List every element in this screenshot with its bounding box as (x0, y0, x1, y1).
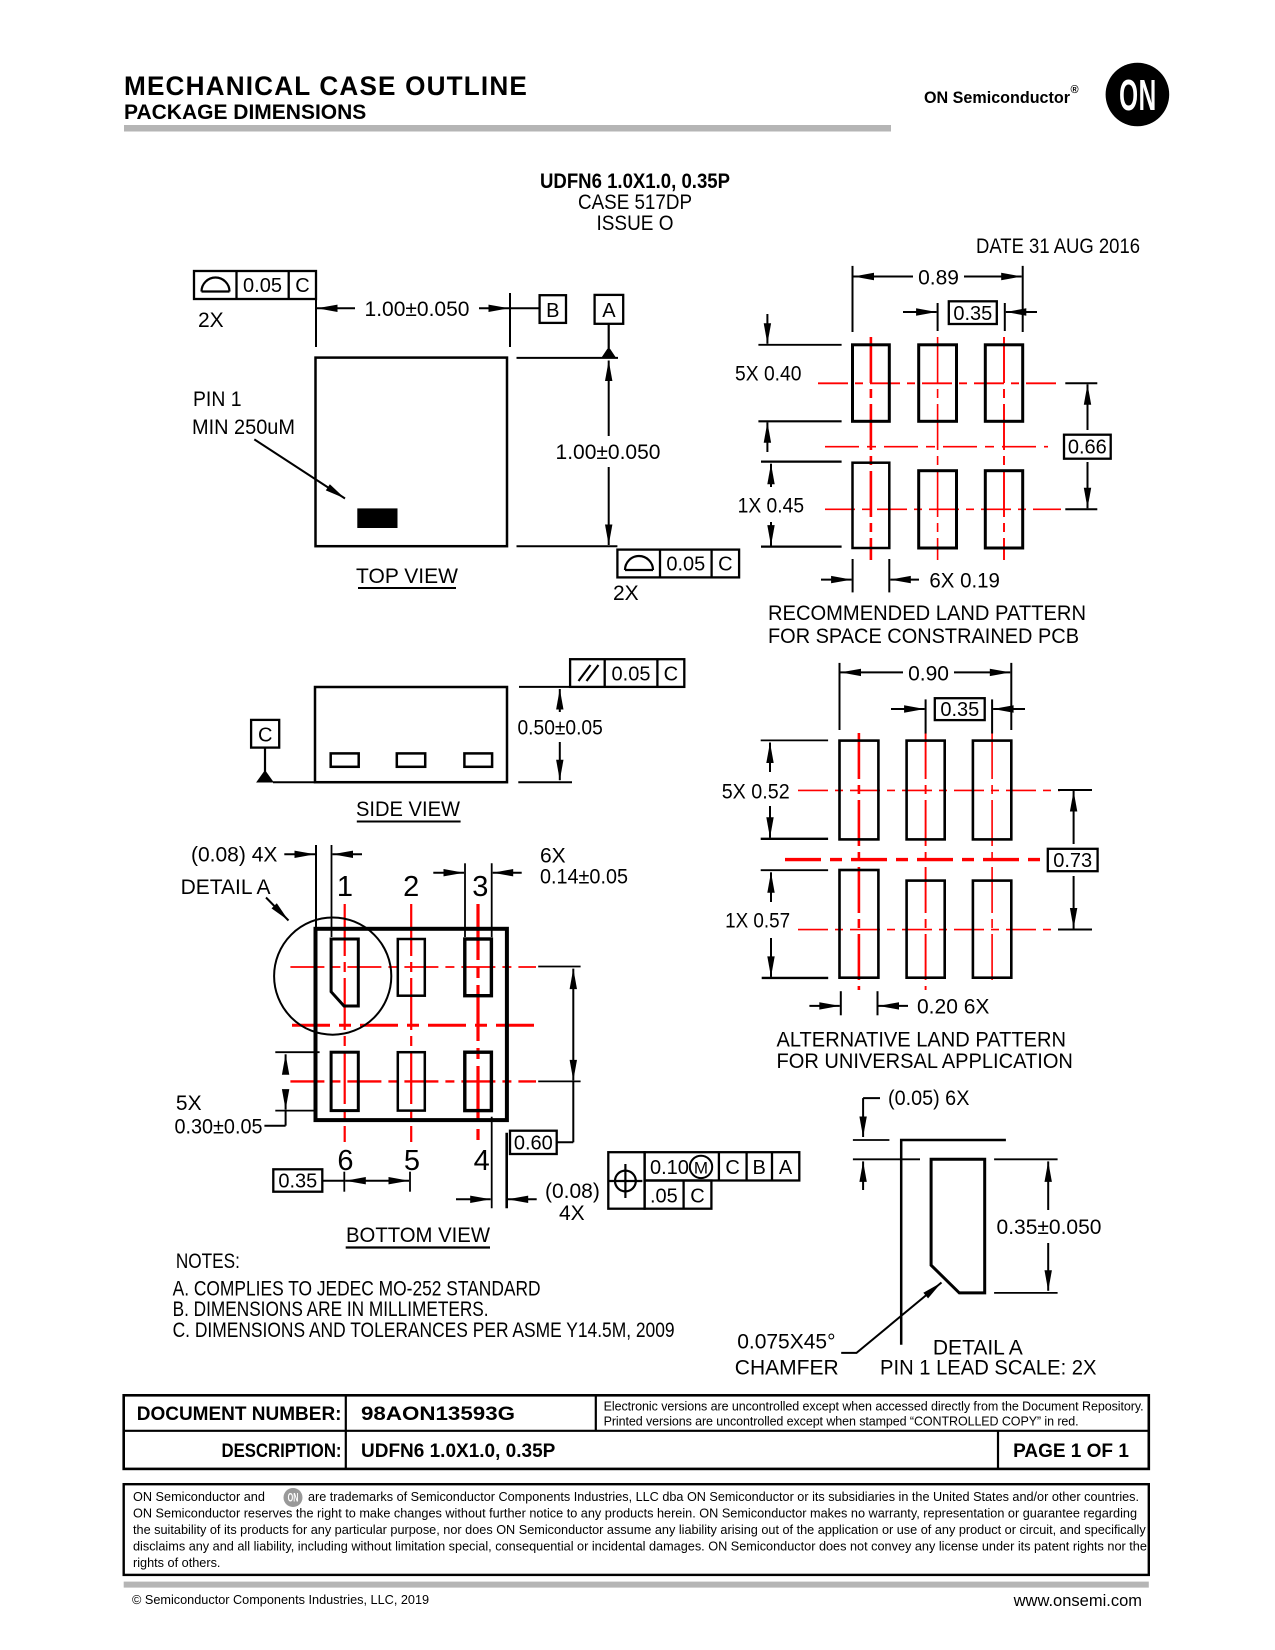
centerline column 3 (1003, 337, 1005, 560)
dimension 0.20 6X (809, 991, 989, 1018)
svg-text:3: 3 (472, 871, 488, 903)
centerline column 1 (858, 733, 861, 990)
centerline bottom row (798, 929, 1060, 931)
position tolerance FCF (608, 1152, 799, 1209)
side view: bottom extension line (518, 781, 572, 783)
side view: pad 2 (397, 753, 425, 766)
svg-text:C: C (718, 554, 732, 576)
dimension 6X 0.19 (821, 559, 1000, 593)
bottom view: dimension (0.08) top left (284, 845, 362, 937)
side view: pad 1 (331, 753, 359, 766)
top view: datum A filled triangle (601, 347, 616, 358)
side view: caption (356, 798, 461, 822)
alternative land pattern: red centerlines (785, 733, 1060, 990)
svg-text:UDFN6 1.0X1.0, 0.35P: UDFN6 1.0X1.0, 0.35P (540, 170, 730, 193)
dimension 0.89 (853, 266, 1023, 332)
bottom view: pad 2 (398, 939, 425, 996)
top view: left extension line (315, 299, 317, 347)
svg-text:0.35±0.050: 0.35±0.050 (997, 1216, 1102, 1239)
svg-text:Electronic versions are uncont: Electronic versions are uncontrolled exc… (604, 1400, 1144, 1414)
svg-text:(0.08): (0.08) (545, 1180, 600, 1203)
detail A: pad top extension line (853, 1158, 920, 1160)
svg-text:0.50±0.05: 0.50±0.05 (518, 717, 603, 740)
svg-text:C: C (725, 1157, 739, 1179)
centerline column 1 (870, 337, 873, 560)
svg-text:1: 1 (337, 871, 353, 903)
document table (124, 1395, 1149, 1469)
svg-text:Printed versions are uncontro: Printed versions are uncontrolled except… (604, 1415, 1079, 1429)
side view: datum C baseline (273, 781, 315, 783)
svg-text:C: C (664, 664, 678, 686)
side view: datum C leader (264, 748, 266, 772)
centerline pin column 1-6 (344, 904, 346, 1142)
svg-text:TOP VIEW: TOP VIEW (356, 565, 458, 588)
svg-text:5X 0.52: 5X 0.52 (722, 781, 790, 804)
bottom view: pad 3 (465, 939, 492, 996)
svg-text:0.73: 0.73 (1053, 850, 1092, 872)
bottom view: dimension (0.08) 4X bottom right (456, 1117, 600, 1225)
top view: horizontal dimension 1.00±0.050 (317, 298, 540, 321)
dimension 0.66 boxed (1064, 383, 1111, 509)
svg-text:PACKAGE DIMENSIONS: PACKAGE DIMENSIONS (124, 101, 366, 124)
svg-text:ON Semiconductor reserves the: ON Semiconductor reserves the right to m… (133, 1507, 1137, 1521)
svg-text:© Semiconductor Components In: © Semiconductor Components Industries, L… (132, 1593, 429, 1607)
detail A: dimension 0.35±0.050 (994, 1159, 1101, 1293)
dimension 5X 0.52 (722, 740, 828, 838)
bottom view: pad 6 (331, 1052, 358, 1110)
detail A: package corner outline (901, 1140, 1006, 1345)
side view: package body outline (315, 687, 507, 782)
side view: datum C filled triangle (256, 770, 274, 783)
dimension 5X 0.40 (735, 314, 842, 452)
svg-text:C: C (690, 1186, 704, 1208)
svg-text:NOTES:: NOTES: (176, 1250, 240, 1273)
svg-text:FOR UNIVERSAL APPLICATION: FOR UNIVERSAL APPLICATION (777, 1050, 1073, 1073)
svg-text:rights of others.: rights of others. (133, 1556, 220, 1570)
svg-text:M: M (694, 1159, 708, 1178)
svg-text:ON Semiconductor: ON Semiconductor (924, 88, 1070, 107)
bottom view: red centerlines (290, 904, 536, 1143)
ON logo (1106, 63, 1170, 127)
svg-text:C: C (258, 725, 272, 747)
svg-text:.05: .05 (650, 1186, 678, 1208)
centerline bottom pad row (290, 1080, 536, 1082)
svg-text:0.35: 0.35 (278, 1171, 317, 1193)
svg-text:1X 0.57: 1X 0.57 (725, 910, 790, 933)
footer gray bar (124, 1582, 1149, 1588)
svg-text:4X: 4X (559, 1202, 585, 1225)
svg-text:SIDE VIEW: SIDE VIEW (356, 798, 460, 821)
bottom view: pad 1 (chamfered) (331, 939, 358, 1006)
svg-text:CHAMFER: CHAMFER (735, 1357, 839, 1380)
side view: parallelism FCF (570, 659, 684, 687)
alternative land pattern: pad 5 (907, 881, 945, 978)
svg-text:0.66: 0.66 (1068, 437, 1107, 459)
centerline middle (292, 1024, 536, 1027)
centerline top pad row (290, 966, 536, 968)
svg-text:2X: 2X (198, 309, 224, 332)
svg-text:www.onsemi.com: www.onsemi.com (1013, 1592, 1142, 1610)
svg-text:0.05: 0.05 (666, 554, 705, 576)
top view: caption (356, 565, 458, 588)
centerline middle thick (785, 858, 1048, 861)
svg-text:®: ® (1071, 84, 1079, 96)
centerline column 2 (925, 733, 927, 990)
svg-text:0.14±0.05: 0.14±0.05 (540, 866, 628, 889)
top view: datum A leader line (608, 324, 610, 348)
top view: package outline (316, 358, 508, 547)
recommended land pattern: pad 4 (985, 471, 1022, 548)
bottom view: package outline (316, 929, 507, 1120)
svg-text:0.075X45°: 0.075X45° (737, 1331, 835, 1354)
legal box (124, 1484, 1149, 1575)
svg-text:6X: 6X (540, 845, 566, 868)
svg-text:ON: ON (288, 1492, 299, 1505)
svg-text:5: 5 (404, 1145, 420, 1177)
legal text (133, 1490, 1147, 1570)
svg-text:ISSUE O: ISSUE O (597, 212, 674, 235)
dimension 0.35 boxed (recommended) (903, 301, 1037, 331)
bottom view: DETAIL A leader arrow (266, 898, 289, 921)
centerline pin column 2-5 (410, 904, 412, 1142)
detail A: pin 1 lead outline (chamfered) (931, 1159, 985, 1293)
alternative land pattern: pad 1 (840, 741, 879, 840)
dimension 1X 0.57 (725, 870, 828, 978)
recommended land pattern: red centerlines (818, 337, 1061, 560)
svg-text:1X 0.45: 1X 0.45 (738, 495, 805, 518)
dimension 0.90 (840, 663, 1012, 731)
position symbol (615, 1171, 636, 1192)
side view: pad 3 (464, 753, 492, 766)
dimension 0.73 boxed (1048, 790, 1098, 930)
svg-text:the suitability of its product: the suitability of its products for any … (133, 1523, 1146, 1537)
centerline middle (825, 446, 1048, 448)
top view: right extension line (509, 293, 511, 347)
svg-text:0.05: 0.05 (243, 275, 282, 297)
bottom view: pad 5 (398, 1052, 425, 1110)
svg-text:0.35: 0.35 (940, 699, 979, 721)
svg-text:MIN 250uM: MIN 250uM (192, 416, 295, 439)
svg-text:PAGE 1 OF 1: PAGE 1 OF 1 (1013, 1441, 1129, 1462)
svg-text:0.30±0.05: 0.30±0.05 (175, 1116, 263, 1139)
alternative land pattern: pad 6 (840, 870, 879, 978)
svg-text:1.00±0.050: 1.00±0.050 (556, 441, 661, 464)
centerline pin column 3-4 (476, 904, 479, 1143)
centerline bottom row (825, 508, 1061, 510)
bottom view: caption (346, 1224, 490, 1248)
svg-text:DOCUMENT NUMBER:: DOCUMENT NUMBER: (137, 1404, 342, 1425)
svg-text:UDFN6 1.0X1.0, 0.35P: UDFN6 1.0X1.0, 0.35P (361, 1441, 556, 1462)
centerline column 2 (937, 337, 939, 560)
top view: pin 1 index marker (357, 508, 397, 528)
svg-text:FOR SPACE CONSTRAINED PCB: FOR SPACE CONSTRAINED PCB (768, 625, 1079, 648)
bottom view: pad 4 (465, 1052, 492, 1110)
recommended land pattern: pad 2 (919, 345, 957, 422)
top view: pin 1 leader arrow (254, 439, 345, 498)
top view: top edge extension line (517, 357, 619, 359)
detail A: (0.05) 6X label and leader (863, 1087, 969, 1190)
bottom view: dimension 5X 0.30±0.05 (175, 1052, 320, 1138)
svg-text:0.20 6X: 0.20 6X (917, 996, 989, 1019)
svg-text:PIN 1: PIN 1 (193, 388, 242, 411)
top view: vertical dimension 1.00±0.050 (556, 361, 661, 546)
top view: datum A box (595, 295, 624, 324)
detail A: chamfer leader arrow (841, 1283, 941, 1353)
detail A: package edge extension stub (853, 1139, 890, 1141)
recommended land pattern: pad 5 (919, 471, 957, 548)
top view: profile FCF (top left) (194, 271, 316, 299)
svg-text:DESCRIPTION:: DESCRIPTION: (222, 1441, 342, 1462)
alternative land pattern: pad 2 (907, 741, 945, 840)
svg-text:6X 0.19: 6X 0.19 (929, 570, 1000, 593)
side view: top extension line (519, 686, 570, 688)
svg-text:ON: ON (1119, 72, 1157, 120)
bottom view: dimension 0.60 boxed (510, 967, 581, 1155)
svg-text:ON Semiconductor and: ON Semiconductor and (133, 1490, 265, 1504)
svg-text:(0.05) 6X: (0.05) 6X (888, 1087, 969, 1110)
svg-text:0.05: 0.05 (612, 664, 651, 686)
svg-text:C: C (295, 275, 309, 297)
svg-text:B. DIMENSIONS ARE IN MILLIMETE: B. DIMENSIONS ARE IN MILLIMETERS. (173, 1298, 489, 1321)
svg-text:0.90: 0.90 (908, 663, 949, 686)
alternative land pattern: pad 3 (973, 741, 1011, 840)
svg-text:B: B (546, 300, 559, 322)
svg-text:0.89: 0.89 (918, 267, 959, 290)
svg-text:5X 0.40: 5X 0.40 (735, 363, 802, 386)
side view: dimension 0.50±0.05 (518, 689, 603, 780)
svg-text:ALTERNATIVE LAND PATTERN: ALTERNATIVE LAND PATTERN (777, 1029, 1067, 1052)
svg-text:0.10: 0.10 (650, 1157, 689, 1179)
svg-text:C. DIMENSIONS AND TOLERANCES P: C. DIMENSIONS AND TOLERANCES PER ASME Y1… (173, 1319, 675, 1342)
alternative land pattern: pad 4 (973, 881, 1011, 978)
svg-text:2X: 2X (613, 582, 639, 605)
svg-text:2: 2 (403, 871, 419, 903)
dimension 1X 0.45 (738, 462, 842, 547)
top view: profile FCF (bottom right) (617, 550, 739, 578)
svg-text:5X: 5X (176, 1092, 202, 1115)
dimension 0.35 boxed (alternative) (891, 698, 1025, 733)
recommended land pattern: pad 6 (853, 463, 890, 548)
svg-text:CASE 517DP: CASE 517DP (578, 191, 692, 214)
svg-text:DETAIL A: DETAIL A (181, 876, 271, 899)
inline ON mini logo (284, 1488, 303, 1507)
recommended land pattern: pad 3 (985, 345, 1022, 422)
top view: bottom edge extension line (517, 545, 618, 547)
svg-text:4: 4 (474, 1145, 490, 1177)
svg-text:RECOMMENDED LAND PATTERN: RECOMMENDED LAND PATTERN (768, 602, 1086, 625)
centerline top row (798, 789, 1060, 791)
svg-text:98AON13593G: 98AON13593G (361, 1404, 515, 1425)
bottom view: dimension 0.35 boxed pitch (273, 1169, 410, 1192)
svg-text:DATE 31 AUG 2016: DATE 31 AUG 2016 (976, 235, 1140, 258)
centerline column 3 (991, 733, 993, 985)
side view: datum C box (251, 720, 279, 748)
centerline top row (818, 382, 1061, 384)
svg-text:disclaims any and all liabilit: disclaims any and all liability, includi… (133, 1540, 1147, 1554)
svg-text:6: 6 (337, 1145, 353, 1177)
bottom view: dimension 0.14 extension lines (433, 863, 521, 937)
svg-text:B: B (753, 1157, 766, 1179)
bottom view: detail A circle (274, 918, 391, 1035)
svg-text:A: A (779, 1157, 793, 1179)
svg-text:0.60: 0.60 (514, 1133, 553, 1155)
bottom view: 6X 0.14±0.05 labels (540, 845, 628, 889)
recommended land pattern: pad 1 (853, 345, 890, 422)
svg-text:(0.08) 4X: (0.08) 4X (191, 844, 277, 867)
svg-text:1.00±0.050: 1.00±0.050 (365, 298, 470, 321)
svg-text:are trademarks of Semiconducto: are trademarks of Semiconductor Componen… (308, 1490, 1139, 1504)
svg-text:0.35: 0.35 (953, 303, 992, 325)
top view: datum B box (540, 295, 566, 323)
header gray divider bar (124, 125, 891, 132)
svg-text:A: A (602, 300, 616, 322)
svg-text:PIN 1 LEAD SCALE: 2X: PIN 1 LEAD SCALE: 2X (880, 1357, 1097, 1380)
svg-text:MECHANICAL CASE OUTLINE: MECHANICAL CASE OUTLINE (124, 71, 528, 101)
svg-text:BOTTOM VIEW: BOTTOM VIEW (346, 1224, 490, 1247)
